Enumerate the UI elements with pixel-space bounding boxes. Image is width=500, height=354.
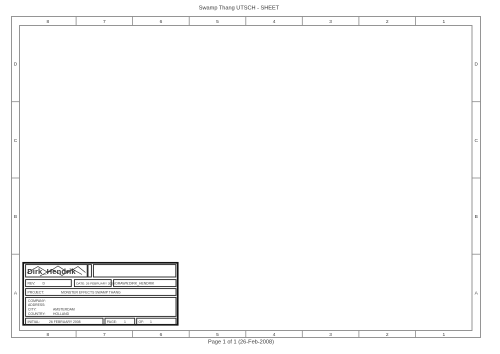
svg-text:6: 6 bbox=[160, 19, 163, 25]
svg-text:5: 5 bbox=[216, 19, 219, 25]
frame zone numbers top bbox=[46, 19, 445, 25]
svg-text:1: 1 bbox=[442, 332, 445, 338]
svg-text:7: 7 bbox=[103, 19, 106, 25]
svg-text:INITIAL:: INITIAL: bbox=[28, 320, 40, 324]
svg-text:DATE: 26 FEBRUARY 2008: DATE: 26 FEBRUARY 2008 bbox=[76, 282, 115, 286]
svg-text:C: C bbox=[474, 138, 478, 144]
svg-text:A: A bbox=[475, 290, 479, 296]
svg-text:B: B bbox=[475, 214, 478, 220]
svg-text:2: 2 bbox=[386, 332, 389, 338]
svg-text:3: 3 bbox=[329, 19, 332, 25]
title block top empty cell bbox=[93, 265, 175, 277]
svg-text:D: D bbox=[43, 282, 46, 286]
svg-text:REV:: REV: bbox=[28, 282, 36, 286]
title block outer box bbox=[23, 263, 178, 325]
svg-text:8: 8 bbox=[46, 19, 49, 25]
svg-text:COUNTRY:: COUNTRY: bbox=[28, 312, 46, 316]
title block REV cell bbox=[26, 280, 72, 287]
svg-text:D: D bbox=[474, 62, 478, 68]
frame row ticks left bbox=[12, 102, 20, 255]
svg-text:7: 7 bbox=[103, 332, 106, 338]
title block PROJECT cell bbox=[26, 289, 176, 296]
svg-text:MONSTER EFFECTS SWAMP THANG: MONSTER EFFECTS SWAMP THANG bbox=[61, 290, 121, 294]
svg-text:Page 1 of 1 (26-Feb-2008): Page 1 of 1 (26-Feb-2008) bbox=[208, 340, 274, 346]
title block OF cell bbox=[137, 318, 176, 325]
svg-text:B: B bbox=[14, 214, 17, 220]
svg-text:1: 1 bbox=[124, 320, 126, 324]
svg-text:6: 6 bbox=[160, 332, 163, 338]
svg-text:C: C bbox=[14, 138, 18, 144]
svg-text:PAGE:: PAGE: bbox=[107, 320, 117, 324]
frame zone letters right bbox=[474, 62, 478, 297]
svg-text:DRAWN:DIRK_HENDRIK: DRAWN:DIRK_HENDRIK bbox=[115, 282, 155, 286]
svg-text:Dirk_Hendrik: Dirk_Hendrik bbox=[27, 267, 76, 276]
svg-text:8: 8 bbox=[46, 332, 49, 338]
title block company cell bbox=[26, 297, 176, 316]
frame inner border bbox=[20, 26, 473, 331]
title block logo cell bbox=[26, 265, 88, 277]
frame zone letters left bbox=[14, 62, 18, 297]
svg-text:D: D bbox=[14, 62, 18, 68]
frame column ticks bottom bbox=[76, 331, 415, 338]
title block DATE cell bbox=[74, 280, 111, 287]
svg-text:HOLLAND: HOLLAND bbox=[53, 312, 70, 316]
title block narrow cell bbox=[88, 265, 91, 277]
title block PAGE cell bbox=[105, 318, 135, 325]
svg-text:4: 4 bbox=[273, 332, 276, 338]
svg-text:5: 5 bbox=[216, 332, 219, 338]
frame row ticks right bbox=[472, 102, 481, 255]
svg-text:1: 1 bbox=[442, 19, 445, 25]
svg-text:PROJECT:: PROJECT: bbox=[28, 290, 44, 294]
svg-text:A: A bbox=[14, 290, 18, 296]
svg-text:2: 2 bbox=[386, 19, 389, 25]
frame column ticks top bbox=[76, 17, 415, 26]
title block logo zigzag art bbox=[27, 266, 86, 276]
svg-text:1: 1 bbox=[150, 320, 152, 324]
svg-text:3: 3 bbox=[329, 332, 332, 338]
title block INITIAL cell bbox=[26, 318, 103, 325]
title block DRAWN cell bbox=[114, 280, 176, 287]
svg-text:4: 4 bbox=[273, 19, 276, 25]
svg-text:OF:: OF: bbox=[139, 320, 145, 324]
svg-text:26 FEBRUARY 2008: 26 FEBRUARY 2008 bbox=[49, 320, 81, 324]
svg-text:Swamp Thang UTSCH - SHEET: Swamp Thang UTSCH - SHEET bbox=[199, 6, 280, 12]
frame zone numbers bottom bbox=[46, 332, 445, 338]
